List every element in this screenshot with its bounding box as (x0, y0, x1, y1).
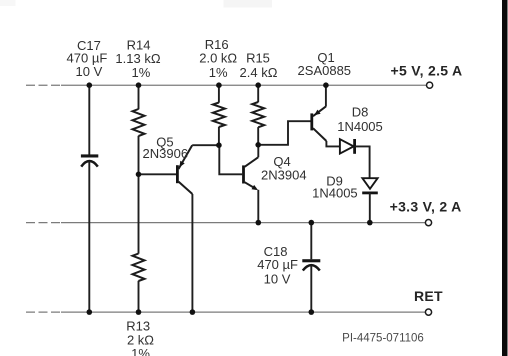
wire Q5 emitter to R16 node (192, 144, 219, 146)
junction Q5 collector/RET (190, 309, 196, 315)
junction C18/RET (309, 309, 315, 315)
svg-text:RET: RET (414, 288, 443, 304)
junction Q4 emitter/+3.3V (255, 220, 261, 226)
wire Q5 collector down (191, 194, 193, 312)
svg-text:1.13 kΩ: 1.13 kΩ (115, 51, 160, 66)
svg-text:R15: R15 (246, 51, 270, 66)
svg-text:2SA0885: 2SA0885 (298, 63, 352, 78)
svg-text:10 V: 10 V (264, 272, 291, 287)
RET rail dashed stub (26, 311, 61, 313)
wire R16 top (218, 85, 220, 103)
wire R13 bottom (138, 281, 140, 312)
wire D8 cathode (355, 146, 370, 177)
junction Q5 base node (136, 172, 142, 178)
wire Q4 collector up (257, 145, 259, 157)
svg-text:470 µF: 470 µF (257, 257, 298, 272)
svg-text:2.4 kΩ: 2.4 kΩ (240, 65, 278, 80)
svg-text:PI-4475-071106: PI-4475-071106 (342, 333, 424, 345)
svg-text:2.0 kΩ: 2.0 kΩ (199, 51, 237, 66)
svg-text:1%: 1% (132, 65, 151, 80)
wire C17 top (88, 85, 90, 154)
transistor Q5 (177, 145, 192, 194)
junction R16/+5V (216, 82, 222, 88)
right border strip (502, 0, 508, 356)
junction R14/+5V (136, 82, 142, 88)
wire C18 top (310, 223, 312, 260)
wire R14 top (138, 85, 140, 109)
resistor R14 (133, 109, 145, 136)
svg-text:10 V: 10 V (76, 64, 103, 79)
wire R15 node to Q1 base (258, 121, 310, 145)
wire D9 cathode to +3.3V (369, 193, 371, 223)
svg-text:+3.3 V, 2 A: +3.3 V, 2 A (390, 199, 462, 215)
junction D9/+3.3V (367, 220, 373, 226)
+5V rail wire (61, 84, 426, 86)
junction C17/+5V (87, 82, 93, 88)
wire C18 bottom (310, 265, 312, 312)
+5V terminal (427, 82, 433, 88)
junction R16 bottom node (216, 142, 222, 148)
svg-text:2N3906: 2N3906 (143, 146, 189, 161)
svg-text:+5 V, 2.5 A: +5 V, 2.5 A (391, 62, 463, 78)
junction R15/+5V (255, 82, 261, 88)
wire R15 top (257, 85, 259, 102)
junction Q1/+5V (323, 82, 329, 88)
capacitor C17 (81, 154, 98, 166)
diode D9 (362, 178, 378, 193)
capacitor C18 (302, 259, 320, 270)
svg-text:1%: 1% (209, 65, 228, 80)
svg-text:D8: D8 (352, 104, 369, 119)
svg-text:1%: 1% (131, 346, 150, 356)
junction C18/+3.3V (309, 220, 315, 226)
junction R15 bottom node (255, 142, 261, 148)
resistor R16 (213, 103, 225, 128)
wire R15 bottom (257, 127, 259, 145)
wire R16 bottom (218, 127, 220, 145)
RET terminal (425, 309, 431, 315)
junction R13/RET (136, 309, 142, 315)
wire R14 to R13 (138, 136, 140, 254)
svg-text:R13: R13 (126, 319, 150, 334)
resistor R13 (133, 254, 145, 282)
svg-text:1N4005: 1N4005 (312, 185, 358, 200)
junction C17/RET (87, 309, 93, 315)
diode D8 (340, 139, 355, 154)
wire Q1 collector to D8 (326, 141, 339, 146)
RET rail wire (61, 311, 425, 313)
transistor Q1 (312, 106, 327, 141)
svg-text:2N3904: 2N3904 (261, 167, 307, 182)
+3.3V rail dashed stub (26, 222, 61, 224)
wire Q1 emitter to +5V (325, 85, 327, 106)
wire Q5 base (139, 173, 177, 175)
svg-text:1N4005: 1N4005 (337, 119, 383, 134)
wire C17 bottom (88, 161, 90, 312)
resistor R15 (252, 102, 264, 127)
top-left crop artifact (0, 0, 16, 6)
+3.3V rail wire (61, 222, 425, 224)
wire R16 node to Q4 base (219, 145, 242, 174)
+5V rail dashed stub (26, 84, 61, 86)
transistor Q4 (244, 157, 259, 190)
+3.3V terminal (425, 220, 431, 226)
top-middle crop artifact (224, 0, 273, 8)
wire Q4 emitter down (257, 190, 259, 223)
